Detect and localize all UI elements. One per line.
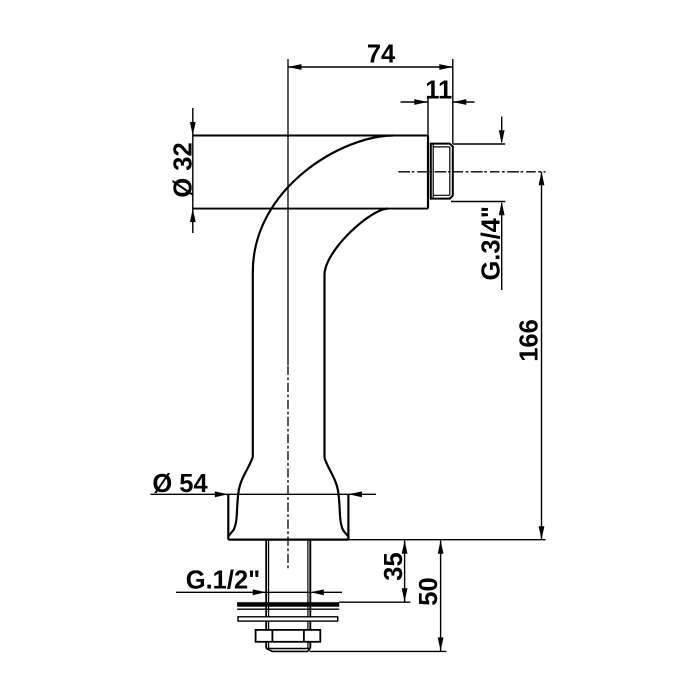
dimension Ø54 left arrow (215, 491, 229, 497)
vertical centerline (pipe axis) with 74-dim extension (287, 59, 289, 365)
base plate bottom edge (228, 538, 348, 540)
spout horizontal section bottom edge + Ø32 extension (193, 208, 428, 210)
base plate right wall (347, 494, 349, 540)
dimension 35 line (404, 540, 406, 602)
svg-text:74: 74 (367, 40, 396, 68)
dimension G3/4 top extension (453, 143, 506, 145)
bell right trumpet curve (325, 458, 349, 537)
stem thread root right (307, 540, 309, 649)
stem tip shoulder line (266, 648, 310, 650)
svg-text:G.3/4": G.3/4" (478, 206, 506, 280)
stem tip chamfer and bottom (267, 649, 310, 652)
dimension 11 left line (401, 101, 428, 103)
dimension 35 top arrow (402, 540, 408, 554)
svg-text:35: 35 (380, 552, 408, 580)
dimension 11 right line (453, 101, 475, 103)
dimension 166 line (541, 172, 543, 540)
spout horizontal section top edge + Ø32 extension (193, 135, 428, 137)
dimension G3/4 bottom extension (451, 201, 505, 203)
dimension G1/2 left arrow (253, 589, 267, 595)
spout outer elbow curve (253, 136, 393, 458)
rubber washer lower line (237, 608, 339, 610)
dimension Ø32 bottom arrow (190, 209, 196, 223)
svg-text:G.1/2": G.1/2" (186, 566, 260, 594)
stem thread crest left (265, 540, 267, 649)
dimension G1/2 right arrow (310, 589, 324, 595)
spout inner elbow curve (325, 209, 389, 458)
thin washer (238, 617, 338, 621)
dimension 74 line (288, 66, 453, 68)
dimension 50 extension (stem bottom) (310, 650, 447, 652)
dimension 74 left arrow (288, 64, 302, 70)
rubber washer (black) (237, 602, 339, 607)
dimension 11 right arrow (453, 99, 467, 105)
dimension Ø32 top arrow (190, 122, 196, 136)
svg-text:11: 11 (425, 77, 452, 105)
stem thread crest right (309, 540, 311, 649)
dimension 35 bottom arrow (402, 588, 408, 602)
dimension Ø54 right arrow (348, 491, 362, 497)
dimension 50 bottom arrow (438, 637, 444, 651)
dimension G1/2 left line (176, 591, 342, 593)
svg-text:166: 166 (516, 319, 544, 362)
dimension G3/4 upper line (501, 117, 503, 142)
dimension G3/4 top arrow (499, 130, 505, 144)
svg-text:50: 50 (415, 577, 443, 605)
dimension 166 top arrow (539, 172, 545, 186)
dimension Ø32 line (192, 108, 194, 233)
dimension G3/4 bottom arrow (499, 202, 505, 216)
dimension 50 top arrow (438, 540, 444, 554)
dimension 74 right arrow (439, 64, 453, 70)
hex nut (256, 630, 321, 642)
dimension 11 left extension (427, 97, 429, 136)
dimension 74 right extension line (452, 59, 454, 144)
dimension 166 bottom arrow (539, 526, 545, 540)
nipple thread inner line (433, 144, 450, 199)
dimension 50 line (440, 540, 442, 651)
svg-text:Ø 54: Ø 54 (152, 470, 208, 498)
svg-text:Ø 32: Ø 32 (169, 142, 197, 197)
hex nut facet lines (272, 630, 304, 642)
bell left trumpet curve (229, 457, 253, 536)
dimension G3/4 lower line (501, 203, 503, 290)
horizontal centerline (nipple axis) (398, 171, 545, 173)
nipple outer body G3/4 (431, 144, 453, 199)
base plate left wall (227, 494, 229, 540)
stem thread root left (268, 540, 270, 649)
dimension 11 left arrow (414, 99, 428, 105)
dimension 35 extension (washer top) (339, 601, 410, 603)
dimension 166 extension (bell bottom) (348, 539, 545, 541)
spout end face (427, 136, 429, 209)
dimension Ø54 line (151, 493, 377, 495)
